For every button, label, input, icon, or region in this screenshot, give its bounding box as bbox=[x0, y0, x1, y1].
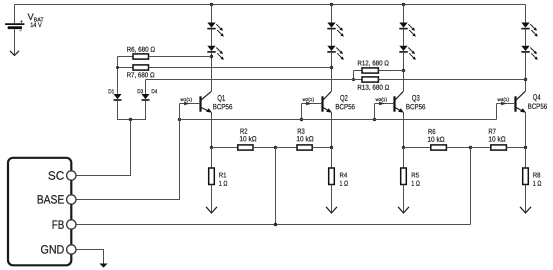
ground (R5) bbox=[398, 207, 409, 213]
wire string1 LED link bbox=[211, 29, 213, 46]
svg-text:BCP56: BCP56 bbox=[406, 102, 426, 111]
wire string1 LED column bbox=[211, 5, 213, 23]
wire mid node to R7 bbox=[471, 147, 491, 149]
wire R8 bottom lead bbox=[525, 185, 527, 213]
net flag w4(1) bbox=[498, 97, 510, 106]
svg-text:R8: R8 bbox=[533, 172, 541, 179]
transistor Q3 bbox=[395, 91, 405, 112]
junction node emitter2 row bbox=[330, 146, 333, 149]
wire R3 to emitter2 bbox=[312, 147, 331, 149]
wire string3 LED column bbox=[403, 5, 405, 23]
svg-text:14 V: 14 V bbox=[30, 22, 42, 29]
wire R6 R7 left join to D1 bbox=[117, 57, 119, 94]
net flag w2(1) bbox=[303, 97, 315, 106]
junction node BASE riser bbox=[178, 118, 181, 121]
junction node R12 R13 join bbox=[352, 78, 355, 81]
wire BASE bus bbox=[180, 119, 497, 121]
svg-text:-: - bbox=[20, 29, 22, 35]
resistor R6 680 bbox=[133, 54, 149, 59]
LED string2 lower bbox=[327, 46, 344, 60]
wire R2 to mid node bbox=[253, 147, 276, 149]
LED string4 upper bbox=[521, 23, 538, 37]
wire R13 left lead bbox=[146, 79, 363, 81]
wire Q3 base riser bbox=[374, 104, 376, 120]
wire battery positive lead bbox=[14, 5, 16, 24]
LED string1 lower bbox=[207, 46, 224, 60]
svg-text:R6, 680 Ω: R6, 680 Ω bbox=[127, 47, 156, 54]
svg-text:w4(1): w4(1) bbox=[498, 97, 510, 102]
wire string4 top drop bbox=[525, 5, 527, 23]
wire battery negative lead bbox=[14, 29, 16, 54]
wire FB sense drop right bbox=[470, 148, 472, 225]
wire R4 bottom lead bbox=[331, 185, 333, 213]
svg-text:w1(1): w1(1) bbox=[181, 97, 193, 102]
wire string4 LED link bbox=[525, 29, 527, 46]
pin SC bbox=[67, 171, 76, 180]
wire R4 top lead bbox=[331, 148, 333, 169]
junction node string1 top bbox=[210, 3, 213, 6]
LED string3 lower bbox=[399, 46, 416, 60]
resistor R7 10k bbox=[491, 145, 507, 150]
junction node SC sense bbox=[129, 118, 132, 121]
svg-text:10 kΩ: 10 kΩ bbox=[239, 134, 257, 143]
wire Q2 base lead bbox=[302, 103, 322, 105]
wire Q1 emitter column bbox=[211, 113, 213, 148]
svg-text:BCP56: BCP56 bbox=[335, 102, 355, 111]
junction node string2 top bbox=[330, 3, 333, 6]
junction node string1 tap bbox=[210, 55, 213, 58]
ground (R8) bbox=[520, 207, 531, 213]
wire Q4 emitter column bbox=[525, 113, 527, 148]
wire R6 to mid node right bbox=[446, 147, 470, 149]
svg-text:w3(1): w3(1) bbox=[376, 97, 388, 102]
junction node R7 left bbox=[116, 66, 119, 69]
pin BASE bbox=[67, 195, 76, 204]
ground (R1) bbox=[206, 207, 217, 213]
wire R8 top lead bbox=[525, 148, 527, 169]
svg-text:D4: D4 bbox=[151, 89, 158, 95]
diode D1 bbox=[114, 94, 122, 100]
svg-text:1 Ω: 1 Ω bbox=[533, 181, 542, 188]
svg-text:R13, 680 Ω: R13, 680 Ω bbox=[357, 85, 389, 92]
wire Q2 base riser bbox=[301, 104, 303, 120]
wire V+ top rail bbox=[15, 4, 526, 6]
wire string2 LED column bbox=[331, 5, 333, 23]
wire R6 right lead bbox=[149, 56, 212, 58]
wire Q2 emitter column bbox=[331, 113, 333, 148]
pin FB bbox=[67, 220, 76, 229]
resistor R3 bbox=[297, 145, 312, 150]
resistor R4 1 ohm bbox=[329, 168, 335, 185]
wire R5 bottom lead bbox=[403, 185, 405, 213]
svg-text:1 Ω: 1 Ω bbox=[339, 181, 348, 188]
wire diode cathode bus bbox=[118, 101, 146, 120]
wire mid node to R3 bbox=[276, 147, 298, 149]
wire string4 collector column bbox=[525, 52, 527, 91]
wire R7 left lead bbox=[118, 67, 134, 69]
junction node string4 tap bbox=[524, 78, 527, 81]
resistor R8 1 ohm bbox=[523, 168, 529, 185]
resistor R2 bbox=[238, 145, 253, 150]
net flag w3(1) bbox=[376, 97, 388, 106]
ground (battery) bbox=[10, 51, 19, 56]
wire string3 LED link bbox=[403, 29, 405, 46]
svg-text:10 kΩ: 10 kΩ bbox=[296, 134, 314, 143]
net flag w1(1) bbox=[181, 97, 193, 106]
svg-text:BASE: BASE bbox=[37, 192, 65, 206]
wire R1 top lead bbox=[211, 148, 213, 169]
junction node R6 R7 bbox=[469, 146, 472, 149]
wire Q1 base lead bbox=[180, 103, 200, 105]
LED string2 upper bbox=[327, 23, 344, 37]
wire Q3 emitter column bbox=[403, 113, 405, 148]
resistor R6 10k bbox=[431, 145, 447, 150]
wire GND lead bbox=[76, 250, 104, 264]
wire R7 right lead bbox=[149, 67, 332, 69]
resistor R1 1 ohm bbox=[209, 168, 215, 185]
svg-text:D1: D1 bbox=[108, 89, 114, 95]
wire SC lead bbox=[76, 120, 131, 176]
svg-text:1 Ω: 1 Ω bbox=[219, 181, 228, 188]
svg-text:Q4: Q4 bbox=[533, 93, 541, 102]
diode D3 D4 bbox=[142, 94, 150, 100]
resistor R13 680 bbox=[362, 77, 378, 82]
junction node string3 tap bbox=[402, 69, 405, 72]
junction node string3 top bbox=[402, 3, 405, 6]
wire string2 LED link bbox=[331, 29, 333, 46]
junction node emitter4 row bbox=[524, 146, 527, 149]
junction node emitter1 row bbox=[210, 146, 213, 149]
wire Q4 base riser bbox=[496, 104, 498, 120]
junction node R2 R3 bbox=[274, 146, 277, 149]
wire R13 right lead bbox=[378, 79, 525, 81]
svg-text:10 kΩ: 10 kΩ bbox=[427, 135, 445, 144]
ground (GND pin) bbox=[99, 264, 107, 268]
LED string3 upper bbox=[399, 23, 416, 37]
wire Q4 base lead bbox=[497, 103, 515, 105]
junction node Q2 base bus bbox=[300, 118, 303, 121]
svg-text:R12, 680 Ω: R12, 680 Ω bbox=[357, 60, 389, 67]
wire D3 anode riser bbox=[145, 80, 147, 95]
svg-text:FB: FB bbox=[52, 218, 65, 232]
junction node string2 tap bbox=[330, 66, 333, 69]
svg-text:R7, 680 Ω: R7, 680 Ω bbox=[127, 72, 155, 79]
resistor R12 680 bbox=[362, 68, 378, 73]
svg-text:BCP56: BCP56 bbox=[213, 102, 233, 111]
svg-text:w2(1): w2(1) bbox=[303, 97, 315, 102]
LED string1 upper bbox=[207, 23, 224, 37]
wire emitter3 to R6 bbox=[404, 147, 431, 149]
transistor Q2 bbox=[323, 91, 333, 112]
svg-text:BCP56: BCP56 bbox=[528, 102, 548, 111]
wire R12 left stub bbox=[354, 70, 363, 72]
wire FB line bbox=[76, 224, 471, 226]
svg-text:10 kΩ: 10 kΩ bbox=[488, 135, 506, 144]
wire R7 to emitter4 bbox=[506, 147, 525, 149]
svg-text:+: + bbox=[20, 20, 23, 26]
wire R5 top lead bbox=[403, 148, 405, 169]
wire Q3 base lead bbox=[375, 103, 394, 105]
svg-text:R4: R4 bbox=[339, 172, 347, 179]
ground (R4) bbox=[326, 207, 337, 213]
wire R12 right lead bbox=[378, 70, 403, 72]
wire R6 left lead bbox=[118, 56, 134, 58]
transistor Q4 bbox=[516, 91, 527, 112]
svg-text:R5: R5 bbox=[411, 172, 419, 179]
junction node FB sense bbox=[274, 223, 277, 226]
junction node emitter3 row bbox=[402, 146, 405, 149]
resistor R5 1 ohm bbox=[401, 168, 407, 185]
wire R12 to R13 join bbox=[353, 71, 355, 80]
wire string3 collector column bbox=[403, 52, 405, 91]
wire R1 bottom lead bbox=[211, 185, 213, 213]
wire string1 collector column bbox=[211, 52, 213, 91]
resistor R7 680 bbox=[133, 65, 149, 70]
svg-text:1 Ω: 1 Ω bbox=[411, 181, 420, 188]
pin GND bbox=[67, 245, 76, 254]
wire FB sense drop left bbox=[275, 148, 277, 225]
svg-text:SC: SC bbox=[48, 169, 65, 183]
wire emitter1 to R2 bbox=[212, 147, 238, 149]
wire string2 collector column bbox=[331, 52, 333, 91]
op-amp/controller IC box bbox=[8, 158, 71, 265]
svg-text:R1: R1 bbox=[219, 172, 227, 179]
svg-text:GND: GND bbox=[40, 242, 64, 256]
label V_BAT 14 V bbox=[28, 12, 45, 29]
transistor Q1 bbox=[201, 91, 213, 112]
junction node Q3 base bus bbox=[373, 118, 376, 121]
battery V_BAT bbox=[5, 20, 24, 35]
wire BASE pin riser bbox=[76, 104, 180, 200]
LED string4 lower bbox=[521, 46, 538, 60]
